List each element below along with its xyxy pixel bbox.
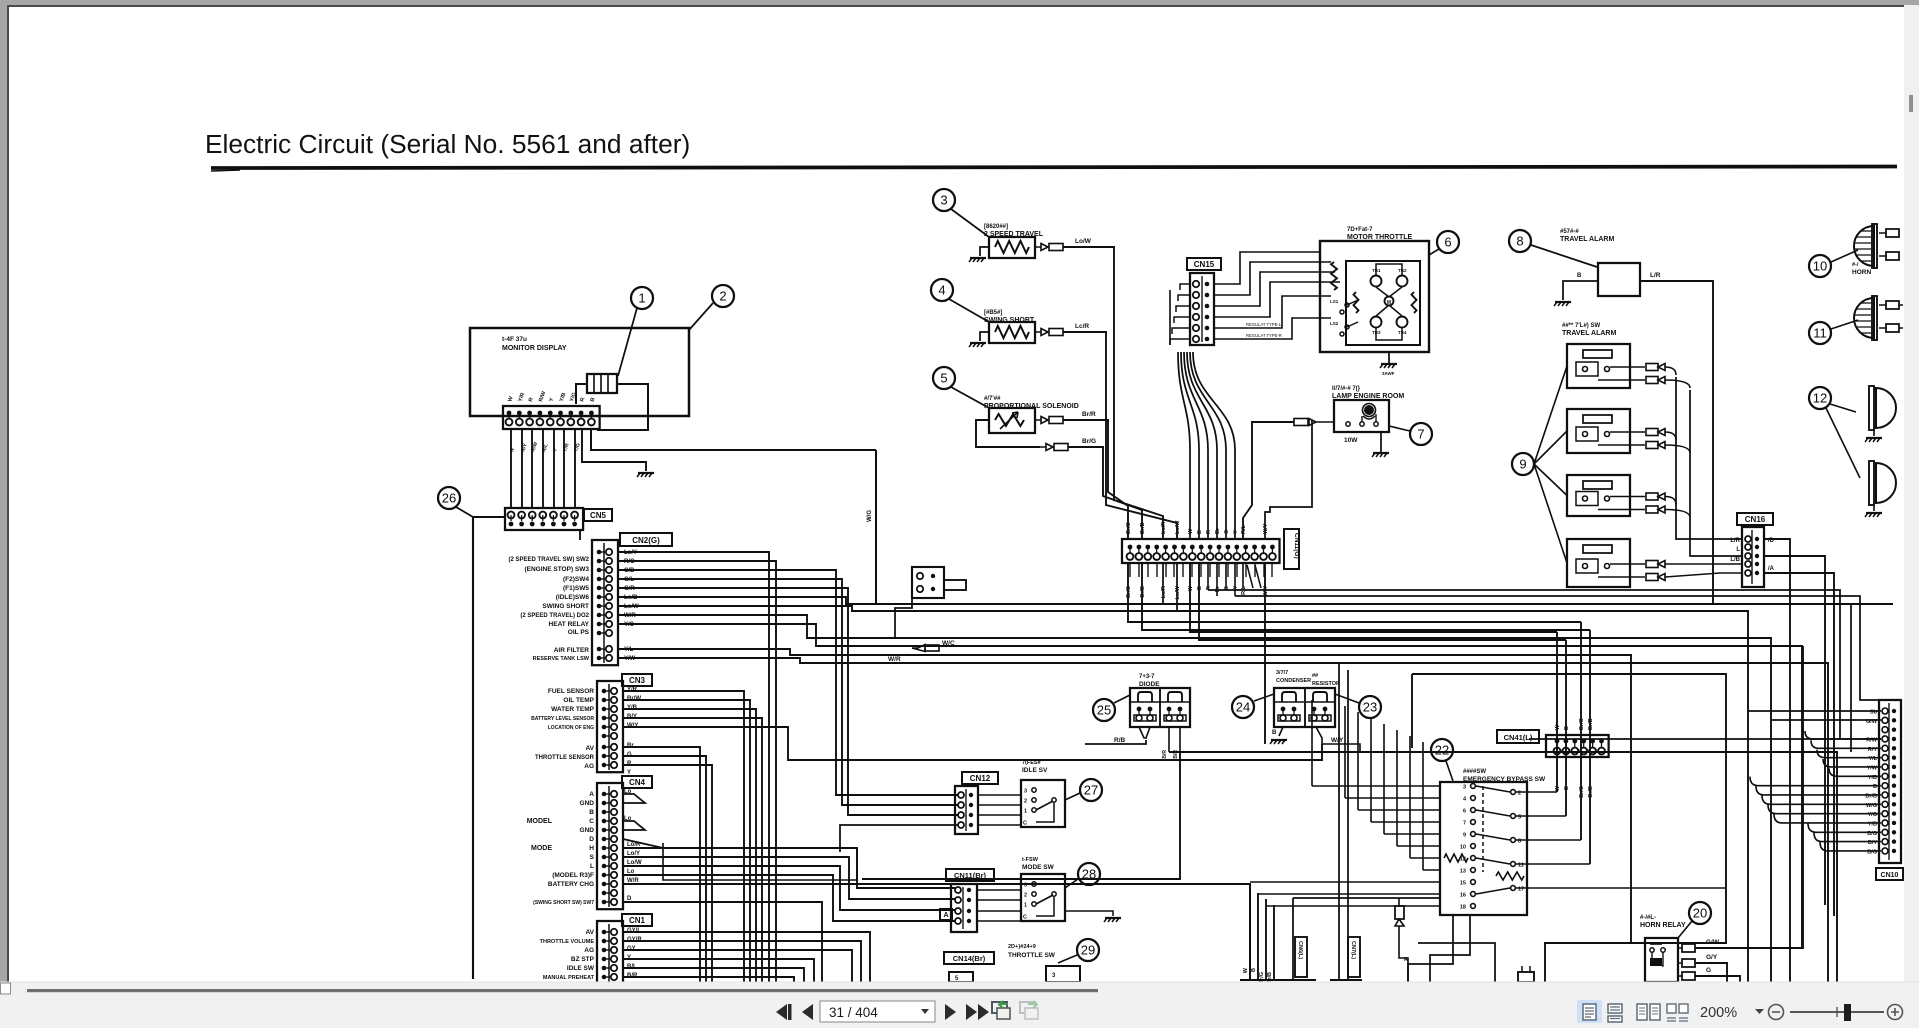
svg-text:C: C xyxy=(1023,821,1027,827)
horn lamp 2 terminals xyxy=(1886,301,1899,309)
toolbar prev-page button xyxy=(802,1004,813,1020)
wire CN11 below WY xyxy=(1264,562,1266,744)
viewer top bar xyxy=(0,0,1919,5)
coil motor throttle xyxy=(1331,262,1337,290)
svg-text:B/R: B/R xyxy=(1173,750,1179,759)
label CN3 xyxy=(622,674,652,686)
svg-text:R: R xyxy=(1206,530,1212,534)
bypass input wires xyxy=(1312,785,1440,787)
wires monitor to CN5 xyxy=(510,429,512,508)
label CN16 xyxy=(1737,513,1773,525)
diode legs left xyxy=(1139,727,1150,738)
svg-text:4: 4 xyxy=(938,283,945,298)
toolbar last-page button xyxy=(966,1004,977,1020)
svg-text:[#B5#]: [#B5#] xyxy=(984,310,1002,316)
svg-text:B/L: B/L xyxy=(627,964,637,970)
toolbar continuous-page button xyxy=(1608,1004,1622,1013)
svg-text:Y/R: Y/R xyxy=(627,687,638,693)
wire bus 590 xyxy=(1208,590,1840,739)
lamp bulb xyxy=(1364,405,1374,415)
diode block xyxy=(1130,688,1190,727)
svg-text:3: 3 xyxy=(940,193,947,208)
wire CN2 SW6 xyxy=(618,588,958,815)
wire BrG vertical bottom xyxy=(1265,899,1267,980)
wire G/Y xyxy=(1695,963,1727,982)
connector CN2 xyxy=(592,540,618,665)
wire CN4 battery chg xyxy=(623,884,1250,980)
bottom-left corner box xyxy=(1,983,11,994)
transistor TR1 xyxy=(1371,276,1382,287)
wire CN5 to CN2 xyxy=(579,530,581,540)
svg-text:CN2(G): CN2(G) xyxy=(632,536,660,545)
wire CN4 A hook xyxy=(623,794,645,803)
svg-text:W/R: W/R xyxy=(888,656,901,663)
svg-text:TRAVEL ALARM: TRAVEL ALARM xyxy=(1560,236,1614,243)
wire W/Y top xyxy=(1265,420,1312,539)
svg-text:CN5: CN5 xyxy=(590,511,607,520)
callout 10 xyxy=(1809,255,1831,277)
svg-text:t-4F 37u: t-4F 37u xyxy=(502,336,527,343)
leader line 8 xyxy=(1531,245,1597,267)
svg-text:2: 2 xyxy=(1024,893,1027,899)
leader line 23 xyxy=(1335,694,1359,703)
travel alarm rail 1 xyxy=(1676,377,1742,539)
svg-text:B/R: B/R xyxy=(1162,750,1168,759)
travel alarm SW box 1 wires xyxy=(1610,366,1645,368)
leader line 11 xyxy=(1831,320,1858,329)
svg-text:W/C: W/C xyxy=(942,640,955,647)
svg-text:(MODEL R3)F: (MODEL R3)F xyxy=(552,872,594,879)
svg-text:B: B xyxy=(1577,273,1582,279)
svg-text:W/Y: W/Y xyxy=(1263,586,1269,597)
callout 4 xyxy=(931,279,953,301)
svg-text:D: D xyxy=(589,836,594,843)
svg-text:I//7/#-# 7(}: I//7/#-# 7(} xyxy=(1332,386,1361,392)
svg-text:200%: 200% xyxy=(1700,1005,1737,1021)
horn relay terminals xyxy=(1682,944,1695,952)
svg-text:REGULAT TYPE-L: REGULAT TYPE-L xyxy=(1246,322,1282,327)
CN11Br stubs xyxy=(977,889,1021,891)
label CN4 xyxy=(622,776,652,788)
leader line 5 xyxy=(951,387,989,408)
svg-text:AV: AV xyxy=(585,745,594,752)
wire bus lower xyxy=(810,744,1322,760)
wire CN41 BrG xyxy=(1580,622,1582,840)
svg-text:AG: AG xyxy=(584,763,594,770)
callout 2 xyxy=(712,285,734,307)
diode legs right xyxy=(1169,727,1180,752)
leader lines 9 xyxy=(1534,366,1567,464)
callout 7 xyxy=(1410,423,1432,445)
connector CN11(G) xyxy=(1122,539,1280,563)
svg-text:W: W xyxy=(1188,585,1194,591)
svg-text:Br/G: Br/G xyxy=(1082,438,1096,445)
svg-text:7: 7 xyxy=(1417,427,1424,442)
svg-text:Y/L: Y/L xyxy=(624,647,634,653)
svg-text:WATER TEMP: WATER TEMP xyxy=(551,706,595,713)
svg-text:CN6(L): CN6(L) xyxy=(1297,941,1303,959)
svg-text:CONDENSER: CONDENSER xyxy=(1276,678,1311,684)
wire fuse left xyxy=(576,384,587,404)
CN16 right wires xyxy=(1764,539,1790,982)
svg-text:MODEL: MODEL xyxy=(527,818,553,825)
wire CN11 below LoW xyxy=(1176,562,1178,611)
svg-text:Br/B: Br/B xyxy=(1588,718,1594,730)
toolbar two-page-continuous button xyxy=(1667,1004,1676,1013)
svg-text:BZ STP: BZ STP xyxy=(571,956,595,963)
leader line 7 xyxy=(1389,426,1410,431)
svg-text:Br/G: Br/G xyxy=(1126,586,1132,598)
wire CN4 sw7 D xyxy=(623,902,822,982)
svg-text:7D+Fat-7: 7D+Fat-7 xyxy=(1347,227,1373,233)
frame inner xyxy=(1418,943,1495,982)
svg-text:Lo/R: Lo/R xyxy=(1161,586,1167,598)
svg-text:Lo/W: Lo/W xyxy=(1075,238,1092,245)
label CN6(L) xyxy=(1295,937,1307,977)
CN10 bundle curves xyxy=(1805,731,1881,739)
ground work lamp 1 xyxy=(1866,437,1882,439)
svg-text:W: W xyxy=(1555,785,1561,791)
svg-text:GND: GND xyxy=(580,800,595,807)
svg-text:26: 26 xyxy=(442,491,456,506)
svg-text:Br: Br xyxy=(1215,585,1221,592)
wire CN11 below LoR xyxy=(1162,562,1164,604)
svg-text:THROTTLE VOLUME: THROTTLE VOLUME xyxy=(540,939,595,945)
svg-text:HORN: HORN xyxy=(1852,269,1871,276)
connector symbol lamp xyxy=(1294,419,1308,426)
svg-text:TRAVEL ALARM: TRAVEL ALARM xyxy=(1562,330,1616,337)
wire CN3 battery xyxy=(623,718,762,982)
relay K1 xyxy=(912,567,944,598)
svg-text:10: 10 xyxy=(1813,259,1827,274)
page top border xyxy=(7,5,1904,7)
horn lamp 1 terminals xyxy=(1886,229,1899,237)
wire CN1 preheat xyxy=(623,977,794,982)
svg-text:IDLE SV: IDLE SV xyxy=(1022,767,1048,774)
svg-text:Lo/R: Lo/R xyxy=(1161,522,1167,534)
wire CN3 fuel xyxy=(623,691,744,982)
svg-text:25: 25 xyxy=(1097,703,1111,718)
wire G xyxy=(1695,976,1740,982)
svg-text:G/Y: G/Y xyxy=(1706,954,1718,961)
svg-text:Y/C: Y/C xyxy=(624,622,635,628)
wire CN4 C hook xyxy=(623,821,645,830)
svg-text:2D+}#24+9: 2D+}#24+9 xyxy=(1008,944,1036,950)
big frame box xyxy=(1412,674,1726,982)
svg-text:Br: Br xyxy=(627,743,634,749)
wire top long connector run xyxy=(1214,283,1240,285)
svg-text:##** 7'L#) SW: ##** 7'L#) SW xyxy=(1562,323,1600,329)
svg-text:A: A xyxy=(943,912,948,919)
svg-text:18: 18 xyxy=(1460,905,1466,911)
wire bus Y/W xyxy=(618,658,1828,982)
wire CN11 below Y xyxy=(1234,562,1236,596)
connector CN15 xyxy=(1190,273,1214,345)
wire CN41 BrB xyxy=(1589,630,1591,864)
svg-text:FUEL SENSOR: FUEL SENSOR xyxy=(548,688,594,695)
label CN2(G) xyxy=(620,533,672,546)
wire CN4 merge xyxy=(623,839,663,848)
svg-text:(SWING SHORT SW) SW7: (SWING SHORT SW) SW7 xyxy=(533,900,594,906)
wires CN15 bundle to CN11 xyxy=(1178,352,1190,539)
svg-text:Br/G: Br/G xyxy=(1126,522,1132,534)
emergency bypass box xyxy=(1440,782,1527,915)
svg-text:S: S xyxy=(590,854,595,861)
condenser resistor block xyxy=(1274,688,1335,727)
callout 11 xyxy=(1809,322,1831,344)
leader line 20 xyxy=(1678,921,1692,938)
wire CN3 oiltemp xyxy=(623,700,750,982)
svg-text:W/Y: W/Y xyxy=(627,723,638,729)
svg-text:##: ## xyxy=(1312,673,1318,679)
svg-text:Br: Br xyxy=(1215,527,1221,534)
travel alarm SW box 2 wires xyxy=(1610,431,1645,433)
svg-text:Br/R: Br/R xyxy=(1082,411,1096,418)
callout 29 xyxy=(1077,939,1099,961)
callout 20 xyxy=(1689,902,1711,924)
ground speed travel xyxy=(980,247,989,256)
svg-text:HORN RELAY: HORN RELAY xyxy=(1640,922,1686,929)
bypass bottom wires xyxy=(1408,915,1453,982)
wire W vertical bottom xyxy=(1249,884,1251,980)
svg-text:MANUAL PREHEAT: MANUAL PREHEAT xyxy=(543,975,595,981)
leader line 27 xyxy=(1065,793,1080,800)
svg-text:B: B xyxy=(589,809,594,816)
CN15 left stubs xyxy=(1180,284,1190,290)
lamp engine room box xyxy=(1334,400,1389,432)
svg-text:W: W xyxy=(1188,528,1194,534)
svg-text:H: H xyxy=(589,845,594,852)
svg-text:G/R: G/R xyxy=(624,586,635,592)
wire CN1 bz xyxy=(623,959,814,982)
svg-text:5: 5 xyxy=(940,371,947,386)
wire CN3 location xyxy=(623,727,810,760)
wire CN12 B hook xyxy=(840,825,958,852)
wire L/R xyxy=(1640,281,1713,604)
leader line 12a xyxy=(1830,404,1856,412)
wire W/C arrow xyxy=(912,645,925,652)
motor wiring xyxy=(1376,287,1402,316)
leader line 4 xyxy=(949,299,989,322)
condenser right leg xyxy=(1316,727,1360,752)
svg-text:11: 11 xyxy=(1813,326,1827,341)
toolbar top edge xyxy=(0,981,1919,983)
wire monitor right run xyxy=(591,429,876,450)
svg-text:t-FSW: t-FSW xyxy=(1022,857,1039,863)
svg-text:#-/: #-/ xyxy=(1852,262,1859,268)
callout 12 xyxy=(1809,387,1831,409)
svg-text:6: 6 xyxy=(1444,235,1451,250)
svg-text:CN41(L): CN41(L) xyxy=(1504,733,1533,742)
svg-text:C/B: C/B xyxy=(624,568,635,574)
svg-text:29: 29 xyxy=(1081,943,1095,958)
svg-text:(F2)SW4: (F2)SW4 xyxy=(563,576,589,583)
wire R/B xyxy=(1085,740,1146,744)
svg-text:R/B: R/B xyxy=(1114,737,1126,744)
wire CN41 W xyxy=(1556,632,1558,792)
svg-text:Lc/R: Lc/R xyxy=(1075,323,1089,330)
leader line 3 xyxy=(951,209,989,237)
work lamp 2 xyxy=(1876,463,1896,503)
svg-text:16: 16 xyxy=(1460,893,1466,899)
svg-text:OIL TEMP: OIL TEMP xyxy=(563,697,594,704)
svg-text:LOCATION OF ENG: LOCATION OF ENG xyxy=(548,725,594,731)
svg-text:LS2: LS2 xyxy=(1330,321,1339,326)
toolbar background xyxy=(0,982,1919,1028)
callout 25 xyxy=(1093,699,1115,721)
connector symbol 4 xyxy=(1035,329,1048,336)
svg-text:B: B xyxy=(1251,968,1257,972)
svg-text:CN10: CN10 xyxy=(1881,872,1899,879)
wire CN11 below RL xyxy=(1242,562,1244,588)
solenoid valve xyxy=(989,408,1035,433)
svg-text:9: 9 xyxy=(1519,457,1526,472)
travel alarm SW box 2 xyxy=(1567,409,1630,453)
leader line 12b xyxy=(1826,408,1860,478)
svg-text:1: 1 xyxy=(638,291,645,306)
svg-text:REGULAT TYPE-R: REGULAT TYPE-R xyxy=(1246,333,1282,338)
travel alarm SW box 3 xyxy=(1567,475,1630,516)
svg-text:CN15: CN15 xyxy=(1194,260,1215,269)
wire CN1 ag xyxy=(623,950,852,982)
monitor display box U2 xyxy=(470,328,689,416)
throttle sw box part xyxy=(1046,966,1080,982)
toolbar first-page button xyxy=(776,1004,787,1020)
horn lamp 1 xyxy=(1854,226,1874,266)
bypass output wires xyxy=(1516,791,1557,793)
leader line 6 xyxy=(1429,249,1439,255)
svg-text:AIR FILTER: AIR FILTER xyxy=(554,647,590,654)
svg-text:27: 27 xyxy=(1084,783,1098,798)
connector CN7(L) top xyxy=(1330,979,1362,981)
svg-text:GY/R: GY/R xyxy=(627,937,642,943)
CN10 feed wires xyxy=(1748,710,1881,712)
svg-text:L/B: L/B xyxy=(1730,557,1740,563)
svg-text:Y: Y xyxy=(1233,530,1239,534)
svg-text:Lo/W: Lo/W xyxy=(624,604,639,610)
ground swing short xyxy=(980,332,989,341)
vertical scrollbar thumb xyxy=(1909,95,1913,112)
toolbar page box xyxy=(820,1001,935,1022)
svg-text:C: C xyxy=(589,818,594,825)
svg-text:31 / 404: 31 / 404 xyxy=(829,1005,878,1020)
svg-text:8: 8 xyxy=(1516,234,1523,249)
svg-text:A: A xyxy=(589,791,594,798)
wire diode down xyxy=(862,752,1180,879)
svg-text:Y: Y xyxy=(627,955,631,961)
travel alarm B wire xyxy=(1563,281,1598,300)
horizontal scrollbar thumb xyxy=(27,989,1098,992)
motor M xyxy=(1385,297,1394,306)
connector CN1 xyxy=(597,921,623,984)
svg-text:Electric Circuit (Serial No. 5: Electric Circuit (Serial No. 5561 and af… xyxy=(205,129,690,159)
label A box xyxy=(940,909,952,920)
wire CN11 below B xyxy=(1199,562,1566,640)
wire CN4 L xyxy=(623,866,955,910)
leader line 10 xyxy=(1831,250,1858,262)
label CN12 xyxy=(962,772,998,784)
svg-text:MODE: MODE xyxy=(531,845,552,852)
svg-text:CN12: CN12 xyxy=(970,774,991,783)
travel alarm rail 2 xyxy=(1690,390,1742,556)
svg-text:RESISTOR: RESISTOR xyxy=(1312,681,1340,687)
svg-text:Lo/W: Lo/W xyxy=(1175,585,1181,599)
svg-text:L/R: L/R xyxy=(1730,538,1740,544)
svg-text:CN11(G): CN11(G) xyxy=(1293,533,1300,559)
svg-text:(2 SPEED TRAVEL SW) SW2: (2 SPEED TRAVEL SW) SW2 xyxy=(509,557,590,563)
leader line 29 xyxy=(1058,955,1077,963)
svg-text:R/L: R/L xyxy=(1241,525,1247,535)
toolbar zoom slider xyxy=(1790,1011,1884,1013)
idle sw box xyxy=(1021,780,1065,827)
svg-text:IDLE SW: IDLE SW xyxy=(567,965,595,972)
travel alarm ground xyxy=(1555,301,1571,303)
svg-text:LS1: LS1 xyxy=(1330,299,1339,304)
wire CN4 S xyxy=(623,857,955,899)
svg-text:24: 24 xyxy=(1236,700,1250,715)
wire bus Lo/B xyxy=(618,597,1893,604)
svg-text:L: L xyxy=(590,863,594,870)
wire CN11 below W xyxy=(1190,562,1557,632)
svg-text:#57#-#: #57#-# xyxy=(1560,229,1579,235)
bypass blades xyxy=(1476,786,1510,792)
wire CN3 watertemp xyxy=(623,709,756,982)
wire CN11 below misc2 xyxy=(1216,562,1218,596)
svg-text:W/Y: W/Y xyxy=(1263,523,1269,534)
svg-text:(2 SPEED TRAVEL) DO2: (2 SPEED TRAVEL) DO2 xyxy=(520,613,589,619)
resistor 2-speed-travel xyxy=(989,237,1035,258)
wire B vertical bottom xyxy=(1257,893,1259,980)
callout 27 xyxy=(1080,779,1102,801)
connector CN41(L) xyxy=(1546,735,1609,757)
motor throttle outer box xyxy=(1320,241,1429,352)
callout 28 xyxy=(1078,863,1100,885)
svg-text:3/7/7: 3/7/7 xyxy=(1276,670,1288,676)
svg-text:G/W: G/W xyxy=(1706,939,1720,946)
svg-text:#-/#L-: #-/#L- xyxy=(1640,915,1656,921)
wire bus Lo/W xyxy=(618,606,1748,982)
CN12 stubs xyxy=(978,794,1021,796)
page left border xyxy=(7,5,9,983)
callout 3 xyxy=(933,189,955,211)
svg-text:/A: /A xyxy=(1768,566,1775,572)
leader line 2 xyxy=(689,303,713,330)
wire CN3 av xyxy=(623,747,700,982)
lamp switch xyxy=(1346,422,1350,426)
wire bus Y/C xyxy=(618,624,1802,948)
component A bottom xyxy=(1518,972,1534,982)
svg-text:12: 12 xyxy=(1813,391,1827,406)
svg-text:CN3: CN3 xyxy=(629,676,646,685)
wire lamp to R/L xyxy=(1243,422,1294,540)
toolbar zoom-in button xyxy=(1888,1005,1903,1020)
wire CN2 SW2 xyxy=(618,552,769,982)
svg-text:W/R: W/R xyxy=(624,613,636,619)
wire CN11 below BrG xyxy=(1128,562,1581,622)
svg-text:G/L: G/L xyxy=(624,577,634,583)
connector CN4 xyxy=(597,783,623,909)
svg-text:Br/B: Br/B xyxy=(1588,786,1594,798)
svg-text:28: 28 xyxy=(1082,867,1096,882)
bypass input verticals xyxy=(1311,700,1313,786)
svg-text:15: 15 xyxy=(1460,881,1466,887)
svg-text:THROTTLE SW: THROTTLE SW xyxy=(1008,952,1056,959)
svg-text:R: R xyxy=(627,761,632,767)
svg-text:G: G xyxy=(1706,967,1711,974)
toolbar two-page button xyxy=(1637,1004,1647,1020)
wire CN2 SW3 xyxy=(618,561,776,982)
travel alarm box xyxy=(1598,263,1640,296)
